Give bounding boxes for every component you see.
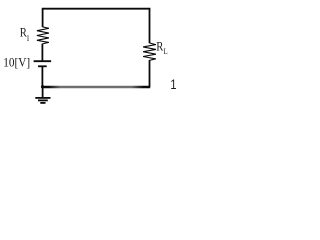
svg-text:R: R: [156, 39, 163, 54]
svg-text:10[V]: 10[V]: [3, 55, 30, 70]
svg-text:R: R: [20, 24, 27, 39]
wire: left vertical from top rail down to resistor Ri: [42, 9, 44, 28]
resistor RL (zigzag): [143, 43, 156, 60]
wire: between resistor Ri and battery: [41, 44, 43, 62]
battery V1 short plate (-): [38, 65, 47, 67]
wire: resistor RL down to bottom rail: [149, 60, 151, 87]
battery V1 long plate (+): [34, 60, 52, 62]
resistor Ri (zigzag): [37, 27, 49, 44]
wire: battery to bottom junction: [41, 66, 43, 86]
ground symbol: [35, 87, 50, 103]
wire: bottom rail: [43, 86, 151, 88]
svg-text:I: I: [27, 33, 30, 43]
svg-text:1: 1: [170, 77, 176, 92]
junction dot at bottom-left node: [41, 85, 44, 88]
wire: top rail: [42, 8, 151, 10]
svg-text:L: L: [164, 47, 168, 57]
wire: right vertical from top rail down to resistor RL: [149, 9, 151, 44]
